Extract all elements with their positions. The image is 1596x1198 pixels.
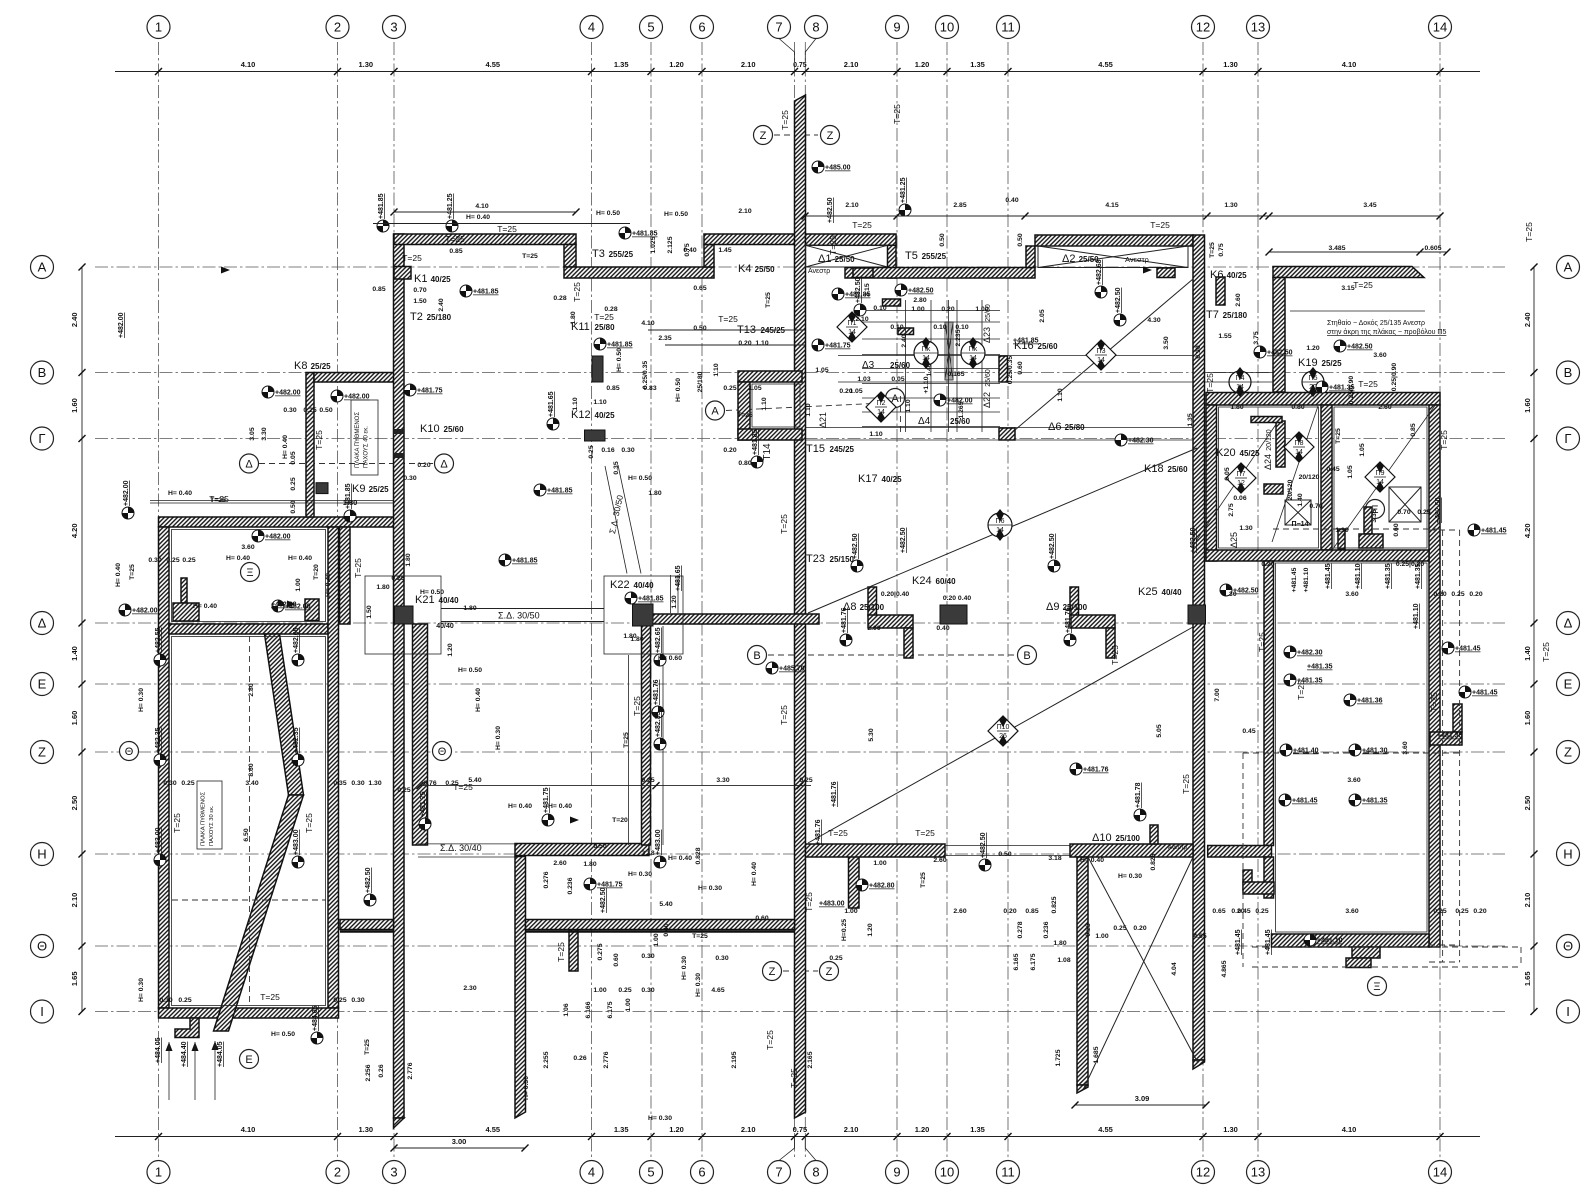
svg-text:+482.50: +482.50 — [855, 277, 862, 303]
svg-text:0.25: 0.25 — [290, 477, 297, 490]
svg-text:0.30: 0.30 — [641, 953, 654, 960]
svg-text:0.825: 0.825 — [1051, 896, 1058, 913]
svg-text:+481.78: +481.78 — [1135, 782, 1142, 808]
marker P6 — [988, 513, 1012, 537]
svg-text:25/80: 25/80 — [1065, 423, 1086, 432]
svg-text:T=25: T=25 — [765, 1030, 775, 1050]
svg-text:2.60: 2.60 — [1235, 293, 1242, 306]
svg-text:1.50: 1.50 — [366, 605, 373, 618]
svg-text:12: 12 — [1196, 20, 1210, 35]
grid bubble Ι left — [31, 1000, 54, 1023]
svg-text:+482.50: +482.50 — [852, 533, 859, 559]
grid bubble 10 top — [936, 16, 959, 39]
dashed line in right block rooms — [1273, 528, 1443, 530]
beam strip K16 — [999, 356, 1008, 382]
svg-text:Π10: Π10 — [997, 724, 1010, 731]
svg-text:K24: K24 — [912, 575, 932, 587]
svg-text:1.60: 1.60 — [1523, 711, 1532, 726]
grid bubble Ε left — [31, 673, 54, 696]
svg-text:T15: T15 — [806, 443, 825, 455]
beam lines between 945 and 1070 — [945, 845, 1070, 847]
svg-text:T=25: T=25 — [1181, 774, 1191, 794]
svg-text:2.40: 2.40 — [438, 298, 445, 311]
svg-text:+481.10: +481.10 — [1413, 603, 1420, 629]
section line A — [726, 403, 884, 411]
svg-text:+483.00: +483.00 — [819, 901, 845, 908]
svg-text:+482.00: +482.00 — [265, 534, 291, 541]
grid bubble Α right — [1557, 256, 1580, 279]
svg-text:1.40: 1.40 — [1297, 493, 1304, 506]
svg-text:3.60: 3.60 — [241, 544, 254, 551]
wall lower-right-room left 2 — [1264, 857, 1274, 898]
grid bubble 1 bottom — [147, 1161, 170, 1184]
svg-text:2.776: 2.776 — [603, 1051, 610, 1068]
svg-text:K17: K17 — [858, 473, 878, 485]
grid line 7 — [794, 42, 796, 1158]
svg-text:0.25: 0.25 — [1433, 908, 1446, 915]
wall stub below y845 east — [849, 857, 860, 909]
section marker Θ — [433, 742, 452, 761]
wall top run east — [704, 234, 795, 245]
svg-text:1.08: 1.08 — [1057, 957, 1070, 964]
svg-text:1.10: 1.10 — [713, 363, 720, 376]
svg-text:H= 0.50: H= 0.50 — [458, 667, 482, 674]
section marker Ε — [240, 1050, 259, 1069]
svg-text:T=25: T=25 — [1335, 428, 1342, 444]
svg-text:0.40: 0.40 — [1005, 197, 1018, 204]
svg-text:Α: Α — [38, 260, 47, 275]
svg-text:3.30: 3.30 — [261, 427, 268, 440]
svg-text:3.18: 3.18 — [1048, 855, 1061, 862]
svg-text:2.10: 2.10 — [1523, 893, 1532, 908]
svg-text:0.23: 0.23 — [1085, 923, 1092, 936]
svg-text:1.60: 1.60 — [70, 711, 79, 726]
svg-text:T=25: T=25 — [210, 497, 226, 504]
svg-text:0.80: 0.80 — [738, 460, 751, 467]
svg-text:+482.65: +482.65 — [293, 627, 300, 653]
svg-text:14: 14 — [969, 355, 977, 362]
svg-text:K18: K18 — [1144, 463, 1164, 475]
marker P1 — [837, 312, 867, 342]
svg-text:Θ: Θ — [438, 746, 447, 758]
grid line Γ — [95, 438, 1505, 440]
svg-text:K8: K8 — [294, 360, 307, 372]
svg-text:0.25: 0.25 — [1417, 509, 1430, 516]
svg-text:0.25: 0.25 — [618, 987, 631, 994]
svg-text:1.00: 1.00 — [593, 987, 606, 994]
section marker Ξ — [1368, 977, 1387, 996]
svg-text:+482.50: +482.50 — [600, 887, 607, 913]
svg-text:H= 0.40: H= 0.40 — [668, 855, 692, 862]
svg-text:T=25: T=25 — [556, 942, 566, 962]
heavy edge of y920 wall — [526, 930, 795, 933]
svg-text:3.40: 3.40 — [245, 780, 258, 787]
grid line 9 — [896, 42, 898, 1158]
svg-text:+482.00: +482.00 — [132, 608, 158, 615]
wall right-block top — [1206, 393, 1440, 406]
wall connection across grid 12 — [1208, 846, 1272, 858]
wall y920 run — [526, 920, 795, 930]
svg-text:T=25: T=25 — [737, 412, 753, 419]
section line Delta — [259, 463, 433, 465]
wall joint marks on grid-3 spine — [394, 429, 405, 434]
svg-text:25/100: 25/100 — [860, 603, 885, 612]
svg-text:3.05: 3.05 — [249, 427, 256, 440]
grid line 11 — [1007, 42, 1009, 1158]
svg-text:+481.85: +481.85 — [473, 289, 499, 296]
svg-text:T=25: T=25 — [789, 1068, 799, 1088]
svg-text:9: 9 — [893, 1165, 900, 1180]
svg-text:H= 0.40: H= 0.40 — [282, 435, 289, 459]
svg-text:2.10: 2.10 — [70, 893, 79, 908]
svg-text:1.60: 1.60 — [70, 398, 79, 413]
svg-text:+484.05: +484.05 — [155, 1037, 162, 1063]
svg-text:0.25: 0.25 — [303, 407, 316, 414]
svg-text:T=25: T=25 — [779, 705, 789, 725]
svg-text:0.20|0.40: 0.20|0.40 — [881, 591, 910, 598]
section line Z top — [774, 134, 818, 136]
svg-text:T14: T14 — [762, 443, 773, 461]
svg-text:Ξ: Ξ — [246, 567, 253, 579]
svg-text:Ανεστρ: Ανεστρ — [1125, 255, 1149, 264]
svg-text:25/60: 25/60 — [444, 425, 465, 434]
svg-text:+482.50: +482.50 — [1267, 350, 1293, 357]
inner face left block upper room — [172, 530, 326, 622]
svg-text:2.10: 2.10 — [845, 202, 858, 209]
marker P5 — [1302, 371, 1324, 393]
svg-text:T2: T2 — [410, 311, 423, 323]
svg-text:0.26: 0.26 — [378, 1064, 385, 1077]
svg-text:+481.35: +481.35 — [1362, 798, 1388, 805]
svg-text:Η: Η — [1563, 847, 1572, 862]
svg-text:H= 0.40: H= 0.40 — [466, 214, 490, 221]
svg-text:1.10: 1.10 — [755, 340, 768, 347]
svg-text:40/40: 40/40 — [436, 623, 454, 630]
svg-text:T=20: T=20 — [313, 564, 320, 580]
svg-text:1.35: 1.35 — [614, 1125, 629, 1134]
wall y845 west run — [515, 844, 649, 856]
svg-text:0.45: 0.45 — [1326, 466, 1339, 473]
svg-text:0.85: 0.85 — [1410, 423, 1417, 436]
bottom secondary dim 3.00 — [394, 1147, 525, 1149]
svg-text:Ζ: Ζ — [1564, 745, 1572, 760]
grid line Η — [95, 853, 1505, 855]
svg-text:+483.00: +483.00 — [293, 829, 300, 855]
svg-text:0.25|0.20: 0.25|0.20 — [1396, 561, 1425, 568]
svg-text:0.70: 0.70 — [413, 287, 426, 294]
svg-text:1.10: 1.10 — [905, 399, 912, 412]
svg-text:Ζ: Ζ — [760, 130, 767, 142]
grid bubble 9 top — [886, 16, 909, 39]
svg-text:0.25: 0.25 — [178, 997, 191, 1004]
svg-text:1.10: 1.10 — [869, 431, 882, 438]
svg-text:0.25/0.35: 0.25/0.35 — [1007, 356, 1014, 385]
svg-text:2.05: 2.05 — [1039, 309, 1046, 322]
svg-text:1.685: 1.685 — [1093, 1046, 1100, 1063]
svg-text:7: 7 — [775, 20, 782, 35]
beam strip Delta-8 — [868, 587, 877, 616]
anchor block on grid A — [853, 268, 873, 278]
wall step down — [564, 245, 576, 268]
inner dashes lower room — [249, 636, 251, 1005]
svg-text:Δ10: Δ10 — [1092, 832, 1112, 844]
column K22 — [633, 604, 654, 626]
section marker Β — [748, 646, 767, 665]
svg-text:0.60: 0.60 — [1393, 523, 1400, 536]
grid line 8 — [804, 42, 806, 1158]
svg-text:1: 1 — [155, 20, 162, 35]
svg-text:H= 0.40: H= 0.40 — [288, 555, 312, 562]
column K24 — [940, 605, 967, 624]
svg-text:Π−14: Π−14 — [1292, 521, 1309, 528]
marker P8 — [1284, 432, 1314, 462]
svg-text:T=25: T=25 — [623, 732, 630, 748]
svg-text:H= 0.40: H= 0.40 — [1080, 857, 1104, 864]
top dimension chain — [115, 71, 1480, 73]
svg-text:0.70: 0.70 — [1397, 509, 1410, 516]
svg-text:ΠΑΧΟΥΣ 40 εκ.: ΠΑΧΟΥΣ 40 εκ. — [364, 426, 370, 468]
svg-text:25/180: 25/180 — [427, 313, 452, 322]
svg-text:+484.40: +484.40 — [181, 1041, 188, 1067]
svg-text:0.20: 0.20 — [1261, 561, 1274, 568]
svg-text:1.20: 1.20 — [669, 1125, 684, 1134]
inner face T13 room — [752, 384, 800, 427]
svg-text:2.60: 2.60 — [553, 860, 566, 867]
svg-text:T=25: T=25 — [522, 253, 538, 260]
svg-text:Δ: Δ — [38, 616, 47, 631]
wall x1077 vertical — [1077, 857, 1088, 1085]
svg-text:0.20: 0.20 — [1433, 591, 1446, 598]
svg-text:T=25: T=25 — [364, 1039, 371, 1055]
beam block at 999,428 — [999, 428, 1015, 440]
svg-text:+482.30: +482.30 — [1128, 438, 1154, 445]
svg-text:20/120: 20/120 — [1266, 429, 1273, 451]
grid bubble Ε right — [1557, 673, 1580, 696]
svg-text:10: 10 — [940, 20, 954, 35]
grid bubble 13 bottom — [1247, 1161, 1270, 1184]
svg-text:+481.45: +481.45 — [1291, 567, 1298, 592]
svg-text:H= 0.30: H= 0.30 — [628, 871, 652, 878]
svg-text:H= 0.30: H= 0.30 — [138, 978, 145, 1002]
svg-text:+481.45: +481.45 — [1292, 798, 1318, 805]
svg-text:T=25: T=25 — [594, 312, 614, 322]
svg-text:0.30: 0.30 — [403, 475, 416, 482]
svg-text:1.00: 1.00 — [1095, 933, 1108, 940]
diagonal slab line D3 — [808, 627, 1193, 843]
svg-text:2.256: 2.256 — [365, 1064, 372, 1081]
wall grid-3 spine — [394, 234, 405, 1118]
grid bubble 9 bottom — [886, 1161, 909, 1184]
svg-text:4.65: 4.65 — [1193, 933, 1206, 940]
svg-text:0.85: 0.85 — [606, 385, 619, 392]
beam line K16 level — [838, 355, 1193, 357]
svg-text:+483.00: +483.00 — [155, 827, 162, 853]
svg-text:0.16: 0.16 — [601, 447, 614, 454]
svg-text:Σ.Δ. 30/40: Σ.Δ. 30/40 — [440, 843, 482, 853]
svg-text:2.40: 2.40 — [901, 334, 908, 347]
bottom dimension chain — [115, 1136, 1480, 1138]
grid line Ε — [95, 683, 1505, 685]
grid line 12 — [1202, 42, 1204, 1158]
svg-text:T=25: T=25 — [632, 696, 642, 716]
svg-text:1.05: 1.05 — [748, 385, 761, 392]
svg-text:2.235: 2.235 — [955, 329, 962, 346]
beam strip horizontal lower — [1359, 534, 1383, 548]
svg-text:0.30: 0.30 — [159, 997, 172, 1004]
svg-text:+481.65: +481.65 — [548, 391, 555, 417]
svg-text:K9: K9 — [352, 483, 365, 495]
svg-text:2.00: 2.00 — [867, 625, 880, 632]
svg-text:0.25: 0.25 — [829, 955, 842, 962]
svg-text:+481.45: +481.45 — [1325, 563, 1332, 589]
diagonal slab line D2 — [808, 448, 1197, 613]
grid bubble 7 bottom — [768, 1161, 791, 1184]
svg-text:+482.50: +482.50 — [1233, 588, 1259, 595]
section marker Ζ — [821, 126, 840, 145]
beam lines west of y845 wall — [418, 843, 515, 845]
svg-text:1.10: 1.10 — [805, 403, 812, 416]
svg-text:0.28: 0.28 — [604, 306, 617, 313]
svg-text:T=25: T=25 — [497, 224, 517, 234]
svg-text:0.35: 0.35 — [613, 461, 620, 474]
svg-text:6: 6 — [698, 20, 705, 35]
svg-text:2.165: 2.165 — [807, 1051, 814, 1068]
svg-text:3.60: 3.60 — [1373, 352, 1386, 359]
wall grid-12 spine — [1193, 235, 1205, 1060]
diagonal slab line D1 — [1015, 279, 1193, 430]
grid line 1 — [158, 42, 160, 1158]
svg-text:0.30: 0.30 — [283, 407, 296, 414]
svg-text:+481.10: +481.10 — [1355, 563, 1362, 589]
svg-text:2.30: 2.30 — [463, 985, 476, 992]
svg-text:1.60: 1.60 — [1523, 398, 1532, 413]
grid bubble 3 bottom — [383, 1161, 406, 1184]
svg-text:1.20: 1.20 — [1306, 345, 1319, 352]
svg-text:Δ: Δ — [245, 459, 253, 471]
svg-text:+481.45: +481.45 — [1481, 528, 1507, 535]
svg-text:+481.75: +481.75 — [825, 343, 851, 350]
diagonals in right block room1 — [1196, 420, 1279, 541]
svg-text:+481.76: +481.76 — [653, 679, 660, 705]
svg-text:+481.45: +481.45 — [1472, 690, 1498, 697]
svg-text:0.20: 0.20 — [941, 306, 954, 313]
grid line 2 — [337, 42, 339, 1158]
svg-text:T=25: T=25 — [828, 828, 848, 838]
svg-text:0.50: 0.50 — [319, 407, 332, 414]
svg-text:Ζ: Ζ — [826, 966, 833, 978]
svg-text:0.25: 0.25 — [641, 777, 654, 784]
svg-text:+481.65: +481.65 — [675, 565, 682, 591]
grid line Α — [95, 266, 1505, 268]
svg-text:40/25: 40/25 — [431, 275, 452, 284]
svg-text:40/25: 40/25 — [595, 411, 616, 420]
X-braced beam Delta-1 — [806, 245, 888, 267]
grid bubble 10 bottom — [936, 1161, 959, 1184]
svg-text:+484.05: +484.05 — [217, 1041, 224, 1067]
leader lines 7/8 top — [779, 39, 795, 63]
wall T13 room left — [738, 382, 750, 440]
svg-text:Δ24: Δ24 — [1263, 454, 1273, 470]
svg-text:+481.85: +481.85 — [378, 193, 385, 219]
beam lines grid B right of grid12 — [1205, 372, 1274, 374]
svg-text:2.10: 2.10 — [855, 316, 868, 323]
svg-text:14: 14 — [1376, 479, 1384, 486]
wall lower-right-room left — [1264, 561, 1274, 846]
svg-text:2.776: 2.776 — [407, 1062, 414, 1079]
svg-text:3.09: 3.09 — [1135, 1094, 1150, 1103]
svg-text:0.50: 0.50 — [693, 325, 706, 332]
section line A vert — [900, 396, 902, 432]
step piece right side upper-left room — [305, 599, 319, 621]
svg-text:0.25: 0.25 — [1255, 908, 1268, 915]
svg-text:20/120: 20/120 — [1299, 474, 1320, 481]
svg-text:T=25: T=25 — [780, 110, 790, 130]
svg-text:25/180: 25/180 — [1223, 311, 1248, 320]
wall step at 1026 — [1026, 246, 1035, 268]
column K1 bump — [394, 267, 411, 280]
grid bubble 8 bottom — [805, 1161, 828, 1184]
svg-text:1.00: 1.00 — [873, 860, 886, 867]
grid bubble 4 top — [580, 16, 603, 39]
svg-text:Δ9: Δ9 — [1046, 601, 1059, 613]
svg-text:4.30: 4.30 — [1147, 317, 1160, 324]
grid line Δ — [95, 622, 1505, 624]
grid bubble 5 top — [640, 16, 663, 39]
grid bubble Ι right — [1557, 1000, 1580, 1023]
svg-text:0.25|0.90: 0.25|0.90 — [1391, 363, 1398, 392]
svg-text:Β: Β — [753, 650, 760, 662]
svg-text:14: 14 — [922, 355, 930, 362]
svg-text:4.10: 4.10 — [1342, 60, 1357, 69]
grid line 13 — [1257, 42, 1259, 1158]
wall along grid A centre — [845, 268, 1035, 279]
svg-text:T=25: T=25 — [402, 253, 422, 263]
svg-text:Θ: Θ — [125, 746, 134, 758]
dashed band bottom right block — [1242, 753, 1244, 967]
grid bubble 13 top — [1247, 16, 1270, 39]
grid bubble 12 bottom — [1192, 1161, 1215, 1184]
grid bubble Β right — [1557, 361, 1580, 384]
wall K6 vertical — [1273, 278, 1285, 393]
svg-text:25/180: 25/180 — [697, 371, 704, 392]
svg-text:H= 0.50: H= 0.50 — [664, 211, 688, 218]
svg-text:7.00: 7.00 — [1214, 688, 1221, 701]
dashed service band right of right block — [1442, 530, 1444, 962]
grid line Θ — [95, 945, 1505, 947]
svg-text:+482.50: +482.50 — [1347, 344, 1373, 351]
svg-text:3.50: 3.50 — [1163, 336, 1170, 349]
svg-text:+481.10: +481.10 — [1303, 567, 1310, 592]
svg-text:0.10: 0.10 — [873, 305, 886, 312]
svg-text:4: 4 — [588, 1165, 595, 1180]
svg-text:H= 0.40: H= 0.40 — [325, 573, 332, 597]
svg-text:5.40: 5.40 — [659, 901, 672, 908]
section marker Ζ — [820, 962, 839, 981]
wall left-block right — [328, 527, 339, 1008]
svg-text:40/40: 40/40 — [1162, 588, 1183, 597]
svg-text:1.20: 1.20 — [447, 643, 454, 656]
K21 thin outline box — [365, 576, 441, 654]
svg-text:Ανεστρ: Ανεστρ — [1168, 845, 1188, 851]
wall y614 run east of K22 — [650, 614, 819, 624]
svg-text:Ε: Ε — [245, 1054, 252, 1066]
svg-text:0.10: 0.10 — [933, 324, 946, 331]
svg-text:Γ: Γ — [1564, 431, 1571, 446]
grid line 4 — [591, 42, 593, 1158]
svg-text:1.80: 1.80 — [1230, 404, 1243, 411]
svg-text:0.25: 0.25 — [723, 385, 736, 392]
svg-text:1.20: 1.20 — [867, 923, 874, 936]
